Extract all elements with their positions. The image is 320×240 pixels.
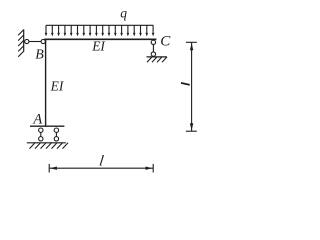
hinge circle at C support (lower) bbox=[151, 52, 155, 56]
right link of A support bbox=[54, 128, 58, 141]
svg-text:B: B bbox=[35, 47, 44, 62]
distributed load arrows bbox=[45, 25, 155, 36]
vertical link below C bbox=[152, 45, 154, 52]
hinge circle at wall end bbox=[25, 39, 29, 43]
label l (right, rotated) bbox=[181, 83, 190, 85]
label l (bottom) bbox=[98, 154, 104, 170]
svg-text:q: q bbox=[120, 6, 127, 21]
left link of A support bbox=[39, 128, 43, 141]
ground line at C bbox=[147, 56, 168, 58]
column B-A (EI) bbox=[45, 40, 47, 127]
svg-text:C: C bbox=[160, 34, 171, 50]
beam B-C (EI) bbox=[44, 38, 156, 40]
horizontal link wall-to-B bbox=[29, 41, 41, 43]
ground hatching at C bbox=[147, 57, 167, 62]
bottom bar of A support bbox=[30, 125, 64, 127]
svg-text:EI: EI bbox=[91, 38, 106, 53]
distributed load top line bbox=[46, 24, 153, 26]
ground line at A bbox=[27, 142, 66, 144]
svg-text:A: A bbox=[32, 112, 42, 128]
hinge circle at joint B bbox=[41, 39, 45, 43]
bottom dimension line l bbox=[49, 164, 153, 173]
hinge circle at C (upper) bbox=[151, 40, 155, 44]
right dimension line l bbox=[186, 42, 197, 131]
svg-text:l: l bbox=[98, 154, 104, 170]
wall line (left support) bbox=[23, 29, 25, 51]
ground hatching at A bbox=[30, 143, 69, 149]
svg-text:EI: EI bbox=[50, 79, 65, 94]
wall hatching bbox=[18, 30, 24, 57]
